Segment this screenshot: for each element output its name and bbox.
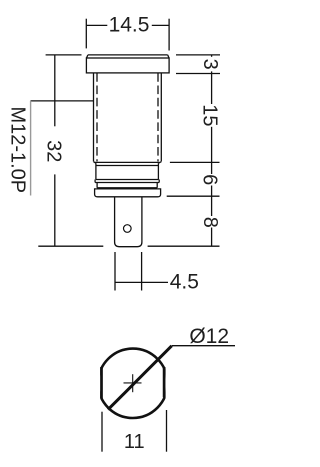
svg-text:M12-1.0P: M12-1.0P	[7, 106, 29, 193]
svg-text:8: 8	[199, 217, 221, 228]
svg-text:6: 6	[199, 174, 221, 185]
svg-text:14.5: 14.5	[109, 14, 150, 37]
svg-text:3: 3	[199, 59, 221, 70]
svg-text:Ø12: Ø12	[189, 325, 229, 348]
svg-text:11: 11	[124, 431, 145, 453]
svg-text:15: 15	[199, 104, 221, 126]
svg-text:32: 32	[43, 140, 65, 162]
svg-text:4.5: 4.5	[170, 271, 199, 294]
